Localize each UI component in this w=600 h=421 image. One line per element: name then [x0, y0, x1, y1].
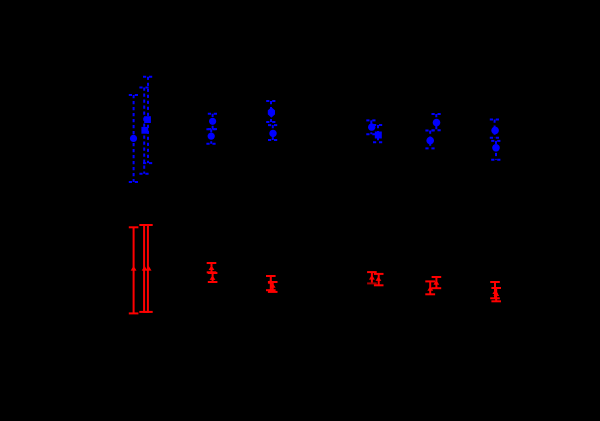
red marker R3S2 (triangle up) — [270, 283, 276, 288]
blue errorbar B1B: dashed vertical bar — [143, 88, 145, 174]
red errorbar R6S2: solid vertical bar — [495, 288, 497, 301]
red marker R3S1 (triangle up) — [268, 279, 274, 284]
red errorbar R3S2: solid vertical bar — [272, 282, 274, 292]
blue errorbar B3S2: top cap — [268, 124, 278, 126]
red errorbar R2S2: solid vertical bar — [212, 273, 214, 282]
red errorbar R5S1: top cap — [432, 276, 442, 278]
blue errorbar B4S2: top cap — [373, 124, 383, 126]
red errorbar R4S2: solid vertical bar — [378, 274, 380, 285]
red marker R1B (triangle up) — [142, 266, 148, 271]
blue errorbar B5S1: top cap — [432, 113, 442, 115]
blue errorbar B4S1: top cap — [366, 119, 376, 121]
blue marker B4S2 (square) — [375, 132, 382, 139]
red errorbar R4S2: top cap — [374, 273, 384, 275]
red marker R5S1 (triangle up) — [433, 280, 439, 285]
blue errorbar B3S1: dashed vertical bar — [270, 101, 272, 122]
red marker R4S1 (triangle up) — [369, 275, 375, 280]
red errorbar R3S2: bottom cap — [268, 291, 278, 293]
red errorbar R1C: solid vertical bar — [147, 225, 149, 312]
red errorbar R6S2: bottom cap — [491, 300, 501, 302]
blue errorbar B6S2: bottom cap — [491, 159, 501, 161]
blue marker B5S2 (circle) — [426, 137, 434, 145]
red errorbar R6S1: bottom cap — [490, 297, 500, 299]
blue errorbar B3S2: bottom cap — [268, 139, 278, 141]
blue marker B6S1 (circle) — [491, 127, 499, 135]
red errorbar R2S1: top cap — [207, 262, 217, 264]
blue errorbar B5S2: dashed vertical bar — [429, 131, 431, 149]
blue errorbar B1C: top cap — [143, 76, 153, 78]
blue errorbar B4S2: bottom cap — [373, 141, 383, 143]
blue errorbar B1A: top cap — [129, 94, 139, 96]
red errorbar R3S2: top cap — [268, 281, 278, 283]
red marker R6S2 (triangle up) — [493, 291, 499, 296]
red errorbar R1C: bottom cap — [143, 311, 153, 313]
red errorbar R5S2: top cap — [425, 280, 435, 282]
blue errorbar B2S2: top cap — [206, 128, 216, 130]
blue errorbar B1B: bottom cap — [139, 173, 149, 175]
blue errorbar B4S2: dashed vertical bar — [377, 125, 379, 142]
red errorbar R1C: top cap — [143, 224, 153, 226]
blue errorbar B5S2: bottom cap — [425, 147, 435, 149]
blue errorbar B4S1: dashed vertical bar — [370, 120, 372, 134]
red errorbar R5S1: bottom cap — [432, 287, 442, 289]
blue marker B3S1 (tdiamond) — [268, 107, 275, 117]
red errorbar R4S1: solid vertical bar — [371, 272, 373, 283]
blue errorbar B6S1: bottom cap — [490, 137, 500, 139]
blue errorbar B1A: bottom cap — [129, 181, 139, 183]
blue errorbar B3S2: dashed vertical bar — [272, 125, 274, 140]
blue errorbar B1C: bottom cap — [143, 162, 153, 164]
blue marker B1A (circle) — [130, 135, 137, 142]
red marker R2S2 (triangle up) — [210, 275, 216, 280]
blue errorbar B2S1: top cap — [208, 113, 218, 115]
blue errorbar B5S1: dashed vertical bar — [435, 114, 437, 130]
red errorbar R3S1: solid vertical bar — [270, 276, 272, 290]
red errorbar R1B: top cap — [139, 224, 149, 226]
blue errorbar B4S1: bottom cap — [366, 133, 376, 135]
blue errorbar B2S1: bottom cap — [208, 128, 218, 130]
blue marker B1C (square) — [144, 116, 151, 123]
blue errorbar B6S1: top cap — [490, 119, 500, 121]
red errorbar R4S1: bottom cap — [367, 282, 377, 284]
blue errorbar B6S2: top cap — [491, 140, 501, 142]
blue marker B2S1 (circle) — [209, 118, 216, 125]
blue marker B1B (square) — [141, 127, 148, 134]
blue errorbar B6S2: dashed vertical bar — [495, 141, 497, 160]
red errorbar R4S2: bottom cap — [374, 284, 384, 286]
red marker R2S1 (triangle up) — [209, 265, 215, 270]
red errorbar R1A: solid vertical bar — [133, 227, 135, 313]
red errorbar R5S2: solid vertical bar — [429, 281, 431, 294]
red marker R4S2 (triangle up) — [376, 276, 382, 281]
red errorbar R2S1: bottom cap — [207, 271, 217, 273]
blue marker B4S1 (circle) — [368, 123, 375, 130]
red errorbar R6S1: top cap — [490, 281, 500, 283]
blue errorbar B3S1: top cap — [266, 100, 276, 102]
blue marker B3S2 (circle) — [269, 130, 276, 137]
red errorbar R6S1: solid vertical bar — [494, 282, 496, 298]
red errorbar R2S1: solid vertical bar — [211, 263, 213, 272]
red errorbar R1A: top cap — [129, 226, 139, 228]
red marker R1A (triangle up) — [131, 266, 137, 271]
red marker R5S2 (triangle up) — [427, 286, 433, 291]
blue errorbar B5S1: bottom cap — [432, 129, 442, 131]
blue errorbar B2S2: bottom cap — [206, 143, 216, 145]
red errorbar R6S2: top cap — [491, 287, 501, 289]
red marker R1C (triangle up) — [146, 266, 152, 271]
red errorbar R4S1: top cap — [367, 271, 377, 273]
blue errorbar B1A: dashed vertical bar — [133, 95, 135, 182]
red marker R6S1 (triangle up) — [492, 289, 498, 294]
blue errorbar B1C: dashed vertical bar — [147, 77, 149, 163]
red errorbar R5S1: solid vertical bar — [435, 277, 437, 288]
blue errorbar B3S1: bottom cap — [266, 121, 276, 123]
red errorbar R1B: bottom cap — [139, 311, 149, 313]
blue errorbar B6S1: dashed vertical bar — [494, 120, 496, 138]
red errorbar R3S1: bottom cap — [266, 289, 276, 291]
blue marker B5S1 (circle) — [433, 119, 441, 127]
blue errorbar B2S1: dashed vertical bar — [212, 114, 214, 129]
blue errorbar B5S2: top cap — [425, 130, 435, 132]
red errorbar R1B: solid vertical bar — [143, 225, 145, 312]
red errorbar R2S2: bottom cap — [208, 281, 218, 283]
blue errorbar B1B: top cap — [139, 87, 149, 89]
red errorbar R2S2: top cap — [208, 272, 218, 274]
red errorbar R1A: bottom cap — [129, 312, 139, 314]
blue errorbar B2S2: dashed vertical bar — [210, 129, 212, 144]
red errorbar R5S2: bottom cap — [425, 293, 435, 295]
red errorbar R3S1: top cap — [266, 275, 276, 277]
blue marker B2S2 (circle) — [208, 133, 215, 140]
blue marker B6S2 (circle) — [492, 144, 500, 152]
